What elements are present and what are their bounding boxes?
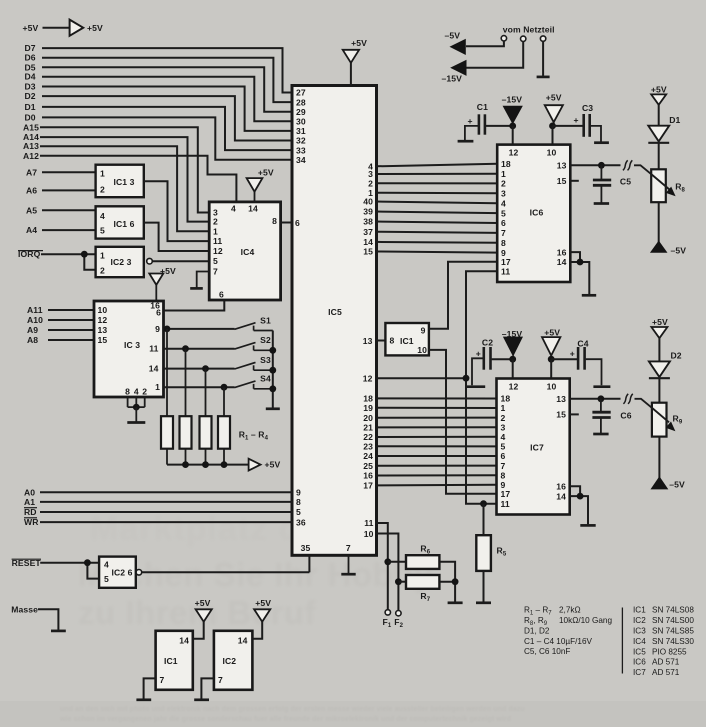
ADC IC6 AD571 — [497, 145, 570, 282]
svg-text:4: 4 — [501, 432, 506, 442]
wire Masse stub — [38, 609, 66, 631]
wire A7 to IC1 pin 1 — [42, 171, 96, 173]
power +5V at IC3 pin 16 — [149, 266, 176, 302]
op IC4 74LS30 8-input NAND — [209, 202, 280, 300]
wire A13 to IC4 pin 1 — [40, 146, 210, 231]
terminal F1 — [383, 610, 392, 629]
svg-text:WR: WR — [24, 517, 39, 527]
svg-text:1: 1 — [100, 169, 105, 179]
svg-text:20: 20 — [363, 413, 373, 423]
switch S2 — [235, 335, 273, 350]
wire IC7 pin 13 analog out — [569, 395, 620, 402]
resistor R1 — [161, 329, 173, 465]
svg-text:2: 2 — [100, 266, 105, 276]
wire IC5 pin 10 to F2 — [376, 534, 402, 611]
svg-text:17: 17 — [501, 257, 511, 267]
svg-text:+5V: +5V — [652, 317, 668, 327]
capacitor C5 — [593, 165, 631, 203]
ground at IC7 pins 16,14 — [569, 486, 596, 525]
svg-text:+: + — [574, 115, 579, 125]
wire D5 to IC5 pin 29 — [42, 67, 293, 111]
node A12 label — [23, 151, 39, 161]
switch S4 — [235, 374, 273, 389]
wire A11 to IC3 — [48, 309, 95, 311]
svg-text:D4: D4 — [25, 72, 36, 82]
svg-text:11: 11 — [501, 499, 510, 509]
ground at switch bus — [266, 407, 280, 410]
svg-text:1: 1 — [155, 382, 160, 392]
wire IC5 pin 3 to IC6 pin 1 — [376, 173, 498, 175]
svg-text:7: 7 — [218, 675, 223, 685]
svg-text:12: 12 — [98, 315, 108, 325]
svg-text:5: 5 — [501, 208, 506, 218]
svg-text:5: 5 — [296, 507, 301, 517]
svg-text:7: 7 — [501, 228, 506, 238]
svg-text:12: 12 — [509, 147, 519, 157]
wire IC7 pin 10 — [550, 359, 552, 379]
svg-text:12: 12 — [363, 374, 373, 384]
svg-text:7: 7 — [501, 461, 506, 471]
wire IC5 pin 24 to IC7 pin 6 — [376, 455, 497, 457]
gate IC2 pins 4,5,6 (74LS00) — [99, 557, 136, 588]
power +5V above D2 — [651, 317, 668, 361]
wire to R9 wiper — [635, 399, 653, 409]
power +5V at IC1 pin 14 — [193, 598, 212, 639]
wire A12 to IC4 pin 4 — [40, 156, 236, 203]
resistor R3 — [200, 369, 212, 465]
wire to R8 wiper — [634, 165, 652, 175]
svg-text:13: 13 — [556, 394, 566, 404]
svg-text:1: 1 — [501, 403, 506, 413]
node D5 label — [25, 62, 36, 72]
wire A4 to IC1 pin 5 — [42, 229, 96, 231]
svg-text:AD 571: AD 571 — [652, 658, 680, 667]
node D4 label — [25, 72, 36, 82]
wire IC5 pin 12 to IC6 pin 11 and IC7 pin 11 — [376, 271, 498, 507]
svg-text:IC1: IC1 — [164, 656, 178, 666]
svg-text:31: 31 — [296, 126, 306, 136]
ground at IC1 pin 7 — [136, 678, 156, 699]
svg-text:A0: A0 — [24, 487, 35, 497]
capacitor C6 — [592, 399, 631, 434]
svg-text:SN 74LS30: SN 74LS30 — [652, 637, 694, 646]
wire A15 to IC4 pin 3 — [40, 127, 210, 212]
svg-text:7: 7 — [160, 675, 165, 685]
svg-text:A9: A9 — [27, 325, 38, 335]
svg-text:IC2: IC2 — [633, 616, 646, 625]
wire IC5 pin 2 to IC6 pin 2 — [376, 182, 498, 184]
svg-text:IC1: IC1 — [633, 606, 646, 615]
svg-text:IC 3: IC 3 — [124, 340, 140, 350]
shield break symbol — [623, 160, 632, 170]
wire IC5 pin 40 to IC6 pin 4 — [376, 202, 498, 204]
svg-text:C6: C6 — [620, 410, 631, 420]
svg-text:C4: C4 — [577, 338, 588, 348]
svg-text:A13: A13 — [23, 141, 39, 151]
wire IC4 pin 8 to IC5 pin 6 — [280, 222, 293, 224]
power -5V arrow from terminal 1 — [445, 30, 504, 54]
svg-text:15: 15 — [557, 176, 567, 186]
node A5 label — [26, 205, 37, 215]
wire IC5 pin 13 to IC1 pin 8 — [376, 340, 386, 342]
diode D2 — [649, 350, 682, 402]
wire RD to IC5 — [40, 511, 293, 513]
inverter bubble IC2 pin 3 — [147, 258, 153, 264]
svg-text:–5V: –5V — [445, 30, 461, 40]
svg-text:A15: A15 — [23, 122, 39, 132]
svg-text:3: 3 — [501, 422, 506, 432]
wire A10 to IC3 — [48, 319, 95, 321]
svg-text:+5V: +5V — [195, 598, 211, 608]
wire R1-R4 common rail — [167, 461, 249, 468]
wire D7 to IC5 pin 27 — [42, 48, 293, 92]
svg-text:10: 10 — [98, 305, 108, 315]
wire A14 to IC4 pin 2 — [40, 137, 210, 222]
ground at IC2 pin 7 — [194, 678, 214, 699]
svg-text:D0: D0 — [25, 112, 36, 122]
node A13 label — [23, 141, 39, 151]
svg-text:IC2 6: IC2 6 — [112, 568, 133, 578]
wire A0 to IC5 — [40, 491, 293, 493]
node D0 label — [25, 112, 36, 122]
svg-text:IC7: IC7 — [633, 668, 646, 677]
svg-text:1: 1 — [100, 251, 105, 261]
svg-text:13: 13 — [363, 336, 373, 346]
wire IC5 pin 39 to IC6 pin 5 — [376, 212, 498, 214]
svg-text:14: 14 — [149, 364, 159, 374]
svg-text:IC4: IC4 — [633, 637, 646, 646]
svg-text:6: 6 — [501, 218, 506, 228]
svg-text:C3: C3 — [582, 103, 593, 113]
svg-text:2: 2 — [213, 217, 218, 227]
wire WR to IC5 — [40, 521, 293, 523]
wire IC3 to switch S2 — [163, 345, 235, 352]
svg-text:–5V: –5V — [669, 480, 685, 490]
svg-text:14: 14 — [363, 237, 373, 247]
resistor R6 — [388, 544, 440, 569]
shield break symbol 2 — [623, 394, 632, 404]
svg-text:4: 4 — [231, 204, 236, 214]
svg-text:40: 40 — [363, 197, 373, 207]
wire IC3 to switch S3 — [163, 365, 235, 372]
svg-text:9: 9 — [155, 324, 160, 334]
svg-text:C2: C2 — [482, 338, 493, 348]
svg-text:6: 6 — [501, 451, 506, 461]
svg-text:6: 6 — [295, 218, 300, 228]
svg-text:IC3: IC3 — [633, 627, 646, 636]
ground at IC4 pin 7 — [190, 272, 209, 289]
svg-text:+5V: +5V — [351, 38, 367, 48]
svg-text:11: 11 — [501, 266, 510, 276]
svg-text:D1: D1 — [669, 115, 680, 125]
svg-text:21: 21 — [363, 423, 373, 433]
wire A6 to IC1 pin 2 — [42, 189, 96, 191]
wire IC6 pin 13 analog out — [570, 162, 621, 169]
wire IC5 pin 25 to IC7 pin 7 — [376, 465, 497, 467]
wire IC5 pin 17 to IC7 pin 9 — [376, 484, 497, 487]
svg-text:38: 38 — [363, 217, 373, 227]
switch S3 — [235, 355, 273, 370]
svg-text:+5V: +5V — [258, 167, 274, 177]
wire A9 to IC3 — [48, 329, 95, 331]
svg-text:14: 14 — [179, 636, 189, 646]
svg-text:S4: S4 — [260, 374, 271, 384]
inverter bubble IC2 pin 6 — [136, 570, 142, 576]
node A10 label — [27, 315, 43, 325]
wire IC5 pin 18 to IC7 pin 18 — [376, 397, 497, 399]
svg-text:D6: D6 — [25, 53, 36, 63]
wire IC5 pin 4 to IC6 pin 18 — [376, 164, 498, 167]
svg-text:11: 11 — [149, 344, 158, 354]
svg-text:vom Netzteil: vom Netzteil — [503, 25, 555, 35]
svg-text:30: 30 — [296, 117, 306, 127]
ghost bottom strip — [0, 701, 706, 727]
svg-text:A12: A12 — [23, 151, 39, 161]
capacitor C1 — [458, 102, 513, 141]
svg-text:7: 7 — [213, 267, 218, 277]
svg-text:S2: S2 — [260, 335, 271, 345]
wire IORQ to IC2 pins 1,2 — [41, 251, 96, 270]
wire IC1 pin 6 to IC4 pin 12 — [144, 223, 210, 251]
svg-text:35: 35 — [301, 543, 311, 553]
svg-text:5: 5 — [100, 226, 105, 236]
svg-text:25: 25 — [363, 461, 373, 471]
svg-text:+: + — [468, 116, 473, 126]
svg-text:+5V: +5V — [546, 93, 562, 103]
svg-text:8: 8 — [390, 335, 395, 345]
svg-text:SN 74LS85: SN 74LS85 — [652, 627, 694, 636]
wire D6 to IC5 pin 28 — [42, 58, 293, 102]
wire IC1 pin 9 to IC6 pin 17 — [429, 262, 498, 329]
switch S1 — [235, 315, 273, 330]
svg-text:32: 32 — [296, 136, 306, 146]
svg-text:5: 5 — [104, 574, 109, 584]
svg-text:36: 36 — [296, 517, 306, 527]
resistor R5 — [476, 504, 507, 603]
op IC2 power box — [214, 631, 253, 690]
svg-text:8: 8 — [296, 497, 301, 507]
svg-text:17: 17 — [363, 481, 373, 491]
wire IC5 pin 16 to IC7 pin 8 — [376, 474, 497, 476]
node A7 label — [26, 167, 37, 177]
label R1-R4 — [239, 430, 269, 442]
wire IC5 pin 20 to IC7 pin 2 — [376, 417, 497, 419]
wire RESET to IC2 pins 4,5 — [40, 559, 99, 578]
svg-text:+5V: +5V — [265, 460, 281, 470]
svg-text:14: 14 — [238, 636, 248, 646]
svg-text:15: 15 — [556, 410, 566, 420]
svg-text:10: 10 — [547, 381, 557, 391]
potentiometer R8 — [651, 169, 686, 202]
svg-text:D2: D2 — [671, 350, 682, 360]
svg-text:2: 2 — [501, 179, 506, 189]
node D1 label — [25, 102, 36, 112]
svg-text:24: 24 — [363, 451, 373, 461]
svg-text:29: 29 — [296, 107, 306, 117]
svg-text:IC4: IC4 — [241, 247, 255, 257]
svg-text:S1: S1 — [260, 315, 271, 325]
svg-text:IC6: IC6 — [530, 208, 544, 218]
svg-text:7: 7 — [346, 543, 351, 553]
svg-text:A5: A5 — [26, 205, 37, 215]
svg-text:18: 18 — [501, 159, 511, 169]
svg-text:15: 15 — [98, 335, 108, 345]
svg-text:IC6: IC6 — [633, 658, 646, 667]
svg-text:3: 3 — [501, 189, 506, 199]
svg-text:SN 74LS08: SN 74LS08 — [652, 606, 694, 615]
svg-text:C1: C1 — [477, 102, 488, 112]
wire IC4 pin 6 to IC3 pin 6 — [163, 301, 224, 311]
wire IC5 pin 11 to F1 — [376, 523, 391, 610]
wire IC5 pin 38 to IC6 pin 6 — [376, 222, 498, 224]
svg-text:1: 1 — [213, 226, 218, 236]
svg-text:SN 74LS00: SN 74LS00 — [652, 616, 694, 625]
node A15 label — [23, 122, 39, 132]
svg-text:6: 6 — [219, 290, 224, 300]
ghost bleed-through headline — [78, 510, 433, 631]
node Masse label — [11, 604, 38, 614]
svg-text:13: 13 — [557, 161, 567, 171]
legend IC list — [633, 606, 694, 677]
svg-text:+5V: +5V — [255, 598, 271, 608]
node D6 label — [25, 53, 36, 63]
wire IC2 pin 6 to IC5 pin 35 — [142, 555, 310, 572]
svg-text:14: 14 — [248, 204, 258, 214]
power +5V at IC5 top — [343, 38, 367, 86]
svg-text:IC2: IC2 — [223, 656, 237, 666]
resistor R4 — [218, 387, 230, 464]
svg-text:RD: RD — [24, 507, 37, 517]
svg-text:16: 16 — [557, 247, 567, 257]
svg-text:16: 16 — [363, 471, 373, 481]
svg-text:IC5: IC5 — [633, 647, 646, 656]
resistor R2 — [180, 349, 192, 465]
power -15V at IC7 pin 12 — [502, 329, 523, 363]
gate IC2 pins 1,2,3 (74LS00 NAND) — [96, 247, 144, 277]
wire IC5 pin 23 to IC7 pin 5 — [376, 445, 497, 447]
svg-text:11: 11 — [364, 518, 373, 528]
svg-text:10: 10 — [364, 529, 374, 539]
wire R6 R7 to ground — [439, 562, 462, 603]
svg-text:11: 11 — [213, 236, 222, 246]
svg-text:IC7: IC7 — [530, 443, 544, 453]
svg-text:13: 13 — [98, 325, 108, 335]
svg-text:A4: A4 — [26, 225, 37, 235]
svg-text:27: 27 — [296, 88, 306, 98]
svg-text:33: 33 — [296, 145, 306, 155]
wire IC5 pin 37 to IC6 pin 7 — [376, 232, 498, 233]
svg-text:AD 571: AD 571 — [652, 668, 680, 677]
wire IC1 pin 10 to IC7 pin 17 — [429, 350, 498, 494]
wire IC5 pin 21 to IC7 pin 3 — [376, 426, 497, 428]
node A1 label — [24, 497, 35, 507]
wire IC6 pin 10 — [552, 126, 554, 145]
svg-text:+5V: +5V — [651, 85, 667, 95]
node +5V supply feed top-left — [23, 20, 103, 36]
svg-text:18: 18 — [501, 394, 511, 404]
stub IC7 pin 15 — [569, 413, 579, 415]
svg-text:2: 2 — [501, 413, 506, 423]
svg-text:37: 37 — [363, 227, 373, 237]
svg-text:9: 9 — [421, 325, 426, 335]
capacitor C4 — [551, 338, 610, 386]
svg-text:C1 – C4 10µF/16V: C1 – C4 10µF/16V — [524, 637, 593, 646]
power -5V below R8 — [651, 202, 686, 255]
svg-text:34: 34 — [296, 155, 306, 165]
resistor R7 — [398, 575, 439, 603]
node A11 label — [27, 305, 43, 315]
wire D1 to IC5 pin 213 — [42, 107, 293, 150]
svg-text:wie schon im vergangenen jahr: wie schon im vergangenen jahr die grosse… — [59, 716, 511, 723]
svg-text:+: + — [570, 349, 575, 359]
svg-text:14: 14 — [557, 257, 567, 267]
svg-text:39: 39 — [363, 207, 373, 217]
svg-text:D1, D2: D1, D2 — [524, 626, 550, 635]
wire IC2 pin 3 to IC4 pin 5 — [152, 260, 210, 262]
node WR label — [24, 517, 39, 527]
gate IC1 pins 8,9,10 (74LS08) — [385, 323, 429, 355]
ground at IC6 pins 16,14 — [570, 252, 596, 295]
node D2 label — [25, 91, 36, 101]
svg-text:IC1: IC1 — [400, 336, 414, 346]
wire D3 to IC5 pin 211 — [42, 87, 293, 131]
svg-text:28: 28 — [296, 97, 306, 107]
terminal 1 — [501, 36, 506, 41]
svg-text:5: 5 — [213, 256, 218, 266]
svg-text:+: + — [476, 349, 481, 359]
svg-text:5: 5 — [501, 442, 506, 452]
legend component values — [524, 606, 612, 657]
svg-text:4: 4 — [134, 387, 139, 397]
power +5V at IC7 pin 10 — [542, 328, 560, 363]
wire IC5 pin 1 to IC6 pin 3 — [376, 192, 498, 195]
node A9 label — [27, 325, 38, 335]
power -15V arrow from terminal 2 — [442, 42, 524, 84]
node A0 label — [24, 487, 35, 497]
svg-text:4: 4 — [100, 211, 105, 221]
svg-text:IC2 3: IC2 3 — [111, 257, 132, 267]
svg-text:2: 2 — [100, 185, 105, 195]
svg-text:D1: D1 — [25, 102, 36, 112]
svg-text:8: 8 — [501, 238, 506, 248]
svg-text:9: 9 — [296, 488, 301, 498]
wire IC1 pin 3 to IC4 pin 11 — [144, 181, 210, 241]
op IC1 power box — [156, 631, 193, 690]
svg-text:14: 14 — [556, 491, 566, 501]
svg-text:8: 8 — [501, 470, 506, 480]
svg-text:+5V: +5V — [23, 23, 39, 33]
gate IC1 pins 1,2,3 (74LS08) — [96, 165, 144, 198]
node A8 label — [27, 335, 38, 345]
svg-text:23: 23 — [363, 442, 373, 452]
svg-text:1: 1 — [501, 169, 506, 179]
wire switch common bus to ground — [269, 331, 276, 409]
node A4 label — [26, 225, 37, 235]
wire IC7 pin 12 — [512, 359, 514, 379]
wire A5 to IC1 pin 4 — [42, 209, 96, 211]
node A14 label — [23, 132, 39, 142]
ground at IC5 pin 7 — [341, 555, 355, 574]
svg-text:+5V: +5V — [87, 23, 103, 33]
svg-text:4: 4 — [501, 198, 506, 208]
svg-text:–15V: –15V — [442, 73, 463, 83]
svg-text:–15V: –15V — [502, 95, 523, 105]
svg-text:19: 19 — [363, 403, 373, 413]
svg-text:D7: D7 — [25, 43, 36, 53]
capacitor C3 — [553, 103, 609, 143]
PIO IC5 8255 — [292, 86, 377, 556]
wire D2 to IC5 pin 212 — [42, 96, 293, 140]
